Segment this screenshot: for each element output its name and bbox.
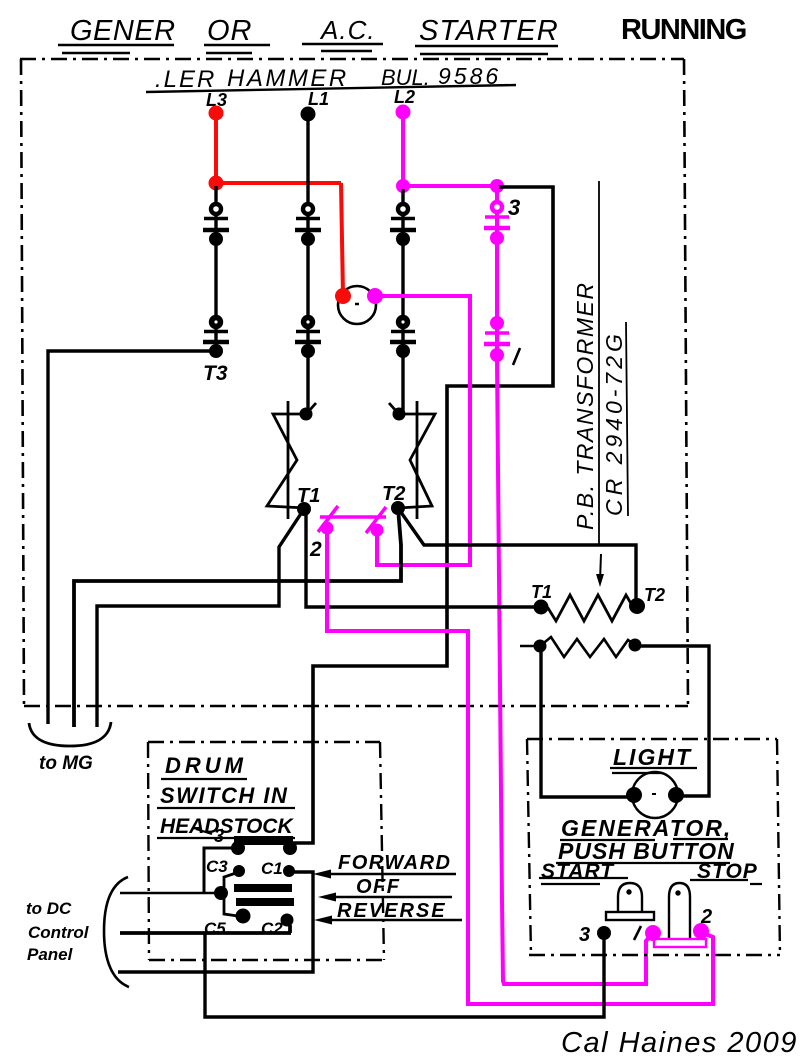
transformer rotated label CR2940-72G [601, 322, 628, 516]
svg-text:Panel: Panel [27, 945, 74, 964]
wire T3 to MG [48, 351, 213, 724]
svg-text:HEADSTOCK: HEADSTOCK [160, 815, 294, 838]
svg-text:T1: T1 [531, 582, 552, 602]
contactor contact L1 upper [295, 202, 321, 246]
node C1 [283, 865, 295, 877]
node L2 junction [396, 179, 410, 193]
node junction at contact 3 [490, 179, 504, 193]
label GENERATOR [560, 815, 732, 841]
title GENER [58, 15, 176, 53]
svg-text:GENER: GENER [70, 15, 176, 47]
coil M circle [338, 286, 376, 324]
main enclosure dash-dot border [20, 59, 688, 706]
stop button [669, 883, 690, 940]
wire L2 phase black [401, 189, 404, 414]
wire secondary left to lamp [541, 646, 628, 797]
wire black from node 3 down right side to drum switch [293, 187, 553, 843]
lamp [632, 772, 678, 818]
svg-text:START: START [541, 860, 615, 883]
overload contact L1 lower [295, 315, 321, 358]
svg-text:SWITCH IN: SWITCH IN [160, 783, 288, 808]
node L3 red terminal [209, 106, 224, 121]
overload contact L2 lower [390, 315, 416, 358]
label REVERSE with arrow [314, 900, 462, 925]
wire C2 to DC line2 [120, 920, 291, 933]
label SWITCH IN [157, 783, 295, 808]
svg-text:DRUM: DRUM [165, 753, 247, 778]
node button terminal 2 [693, 923, 709, 939]
wire secondary right to lamp [633, 646, 709, 796]
label 1 [513, 348, 520, 365]
label STOP [690, 860, 762, 884]
svg-text:L2: L2 [394, 87, 415, 107]
auxiliary contact 3 magenta [484, 200, 510, 245]
title RUNNING [621, 14, 746, 46]
svg-text:C5: C5 [204, 919, 226, 938]
svg-text:Control: Control [28, 923, 90, 942]
node coil left red terminal [335, 288, 351, 304]
node lamp right [668, 787, 684, 803]
label OFF with arrow [318, 876, 452, 902]
svg-text:T2: T2 [644, 585, 665, 605]
node button terminal 1 [645, 925, 661, 941]
start button [606, 883, 654, 920]
wire T2 to MG via 581 [74, 508, 401, 727]
wire L1 phase [306, 113, 309, 414]
svg-text:A.C.: A.C. [319, 15, 376, 45]
wire L3 phase black [214, 186, 217, 351]
svg-text:C2: C2 [261, 919, 283, 938]
drum switch enclosure dash-dot box [148, 742, 385, 960]
drum contact bar B [236, 898, 294, 906]
arrow to transformer [600, 554, 601, 581]
node primary T1 [534, 600, 549, 615]
drum top contact bar [234, 836, 293, 845]
wire T1 to MG [97, 509, 304, 727]
node heater T1 bottom [297, 502, 311, 516]
svg-text:REVERSE: REVERSE [337, 900, 447, 922]
node primary T2 [629, 598, 645, 614]
node button terminal 3 [597, 926, 611, 940]
svg-text:P.B. TRANSFORMER: P.B. TRANSFORMER [572, 282, 598, 531]
node junction DC line1 [214, 886, 228, 900]
node red junction [209, 176, 224, 191]
drum contact bar A [234, 884, 292, 892]
svg-text:FORWARD: FORWARD [338, 852, 451, 874]
contactor contact L2 upper [390, 202, 416, 246]
node secondary right [629, 639, 642, 652]
svg-text:to MG: to MG [39, 753, 93, 774]
svg-text:OR: OR [207, 15, 253, 47]
svg-text:2: 2 [309, 538, 322, 561]
svg-text:T3: T3 [203, 362, 228, 385]
wire T1 to transformer primary [306, 509, 538, 607]
label 1 [634, 926, 641, 940]
node coil right magenta terminal [367, 288, 383, 304]
label PUSH BUTTON [556, 838, 735, 864]
label LIGHT [610, 744, 697, 773]
svg-text:STARTER: STARTER [419, 15, 559, 47]
svg-text:LIGHT: LIGHT [613, 744, 692, 770]
label 3 drum [196, 826, 224, 846]
label HEADSTOCK [157, 815, 295, 838]
svg-text:RUNNING: RUNNING [621, 14, 746, 46]
pushbutton enclosure dash-dot box [527, 739, 780, 955]
label DRUM [161, 753, 247, 779]
node C2 [281, 914, 294, 927]
wire aux2 to stop button magenta [327, 530, 713, 1004]
node DC panel ellipse [104, 877, 129, 987]
node C5 [236, 909, 251, 924]
node heater T2 top [393, 408, 406, 421]
overload heater T1 [267, 401, 316, 519]
subtitle .LER HAMMER BUL. 9586 [146, 63, 516, 93]
svg-text:.LER: .LER [155, 66, 216, 93]
auxiliary contact 1 magenta [484, 316, 510, 362]
jumper C3 to C5 [224, 873, 238, 916]
node C3 [233, 865, 245, 877]
node drum top left [231, 841, 245, 855]
svg-text:C1: C1 [261, 859, 283, 878]
transformer primary winding [543, 595, 633, 621]
auxiliary contact 2 magenta [318, 506, 386, 537]
svg-text:2: 2 [700, 906, 712, 928]
node L2 terminal [396, 105, 411, 120]
stop contact bar magenta [654, 939, 706, 947]
svg-text:C3: C3 [206, 857, 228, 876]
svg-text:to DC: to DC [26, 899, 72, 918]
svg-text:T1: T1 [297, 485, 320, 507]
overload contact T3 [203, 315, 229, 358]
wire button3 to DC line [205, 933, 604, 1017]
svg-text:3: 3 [579, 924, 590, 946]
contactor contact L3 upper [203, 202, 229, 246]
svg-text:OFF: OFF [356, 876, 401, 898]
wire T2 to transformer [398, 508, 636, 602]
wire drum top left to DC line1 [204, 848, 238, 893]
transformer secondary winding [520, 637, 635, 657]
wire DC line1 [120, 892, 221, 895]
wire L2 magenta drop [403, 112, 497, 186]
overload heater T2 [389, 401, 435, 519]
transformer rotated label P.B. TRANSFORMER [572, 181, 599, 545]
svg-text:L1: L1 [308, 89, 329, 109]
wire magenta control branch [497, 186, 652, 984]
node heater T1 top [300, 408, 313, 421]
label FORWARD with arrow [313, 852, 456, 879]
wire L3 red drop [216, 113, 343, 296]
node drum top right [283, 841, 297, 855]
node secondary left [534, 640, 547, 653]
wire coil to aux contact 2 magenta [375, 296, 470, 565]
title A.C. [302, 15, 383, 51]
svg-text:T2: T2 [382, 483, 405, 505]
label START [539, 860, 628, 884]
svg-text:CR 2940-72G: CR 2940-72G [601, 330, 627, 516]
node lamp left [626, 787, 642, 803]
svg-text:3: 3 [508, 195, 520, 220]
title STARTER [415, 15, 559, 54]
node heater T2 bottom [391, 501, 405, 515]
node L1 terminal [301, 107, 316, 122]
wire C1 to DC line3 [118, 872, 313, 972]
svg-text:3: 3 [214, 826, 224, 846]
label to DC Control Panel [26, 899, 90, 964]
svg-text:Cal Haines 2009: Cal Haines 2009 [561, 1027, 798, 1057]
title OR [204, 15, 270, 53]
node MG ellipse [29, 722, 111, 746]
